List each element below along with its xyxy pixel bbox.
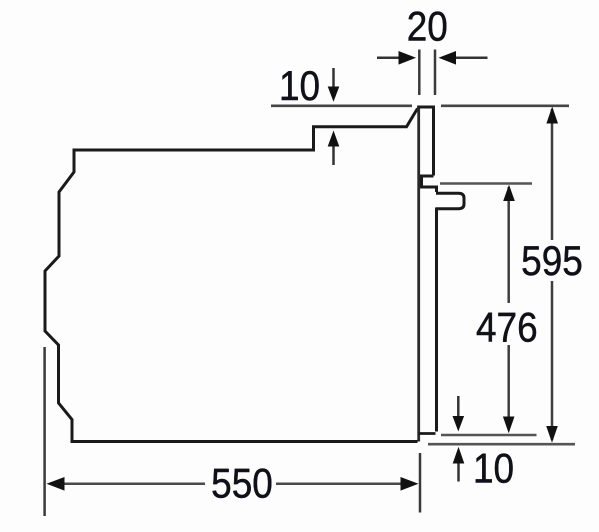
dimension 10 top label [279, 63, 320, 110]
dimension 550 left extension line [43, 347, 46, 516]
dimension 20 left extension line [418, 50, 421, 96]
door top reference line (476 upper extension) [440, 182, 532, 185]
dimension 10 bottom up arrow [457, 463, 460, 482]
dimension 20 right extension line [434, 50, 437, 96]
front frame left edge [417, 107, 420, 442]
svg-text:20: 20 [407, 3, 448, 50]
dimension 550 right arrow [401, 477, 419, 491]
dimension 476 line lower segment [507, 345, 510, 430]
dimension 476 label [476, 304, 538, 351]
dimension 550 label [211, 460, 273, 507]
dimension 10 bottom label [473, 445, 514, 492]
dimension 476 bottom arrow [503, 417, 515, 434]
dimension 10 top up arrow [332, 146, 335, 165]
niche top reference line right segment [441, 105, 569, 108]
dimension 595 bottom arrow [546, 426, 558, 443]
dimension 550 line left segment [63, 483, 205, 486]
svg-text:476: 476 [476, 304, 538, 351]
mounting tab [436, 193, 464, 209]
dimension 10 bottom down arrow [457, 396, 460, 417]
dimension 476 top arrow [503, 185, 515, 201]
front frame right edge lower [435, 208, 438, 432]
oven body outline [45, 109, 418, 442]
dimension 20 left arrow [377, 57, 400, 60]
dimension 595 label [521, 238, 583, 285]
svg-text:595: 595 [521, 238, 583, 285]
svg-text:10: 10 [279, 63, 320, 110]
dimension 550 left arrow [47, 477, 65, 491]
svg-text:550: 550 [211, 460, 273, 507]
dimension 595 line lower segment [551, 281, 554, 440]
floor reference line (595 lower extension) [428, 443, 575, 446]
dimension 20 label [407, 3, 448, 50]
dimension 20 right arrow [455, 57, 488, 60]
front frame top cap [417, 106, 435, 109]
dimension 550 right extension line [419, 453, 422, 513]
niche top reference line left segment [271, 105, 412, 108]
svg-text:10: 10 [473, 445, 514, 492]
dimension 550 line right segment [276, 483, 401, 486]
front frame neck notch [422, 176, 437, 192]
dimension 476 line upper segment [507, 187, 510, 303]
front frame right edge upper [432, 107, 435, 176]
dimension 595 line upper segment [551, 109, 554, 240]
dimension 10 top down arrow [332, 68, 335, 88]
front frame bottom cap [419, 432, 436, 435]
frame bottom reference line (476 lower extension) [441, 434, 537, 437]
dimension 595 top arrow [546, 107, 558, 124]
